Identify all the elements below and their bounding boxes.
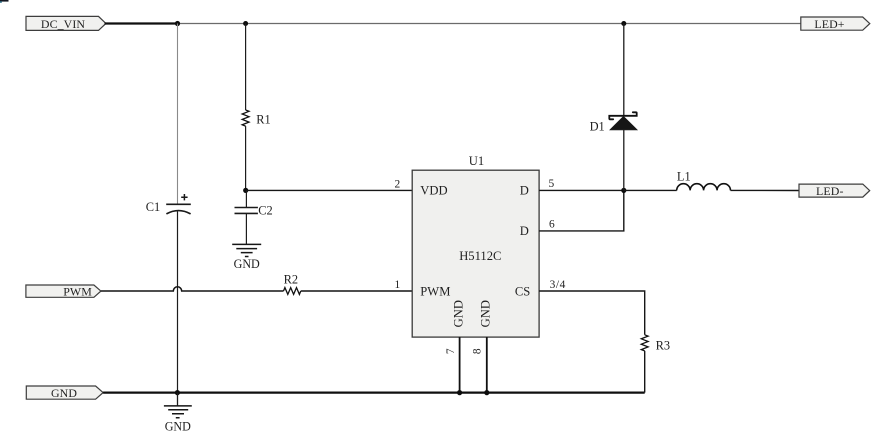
wire node D to C2 — [245, 190, 247, 207]
resistor R2 — [284, 273, 301, 295]
node C junction — [621, 21, 626, 26]
svg-text:R3: R3 — [656, 339, 670, 353]
svg-text:7: 7 — [445, 348, 457, 354]
svg-text:LED+: LED+ — [814, 17, 844, 31]
wire C1 bottom to GND rail — [177, 211, 179, 392]
svg-text:GND: GND — [165, 420, 191, 434]
wire U1 pin 7 to GND rail — [459, 337, 461, 393]
svg-text:LED-: LED- — [816, 184, 843, 198]
node D junction — [243, 188, 248, 193]
svg-text:CS: CS — [515, 285, 530, 299]
wire D1 anode to node E — [623, 130, 625, 191]
svg-text:GND: GND — [451, 300, 465, 327]
resistor R1 — [242, 110, 271, 127]
svg-text:R1: R1 — [256, 113, 270, 127]
svg-text:5: 5 — [548, 178, 554, 190]
wire C2 to ground — [245, 213, 247, 244]
IC U1 body — [412, 154, 539, 337]
svg-text:U1: U1 — [469, 154, 484, 168]
wire node C to D1 cathode — [623, 24, 625, 116]
wire top rail — [178, 23, 801, 25]
svg-text:R2: R2 — [284, 273, 298, 287]
svg-text:C1: C1 — [146, 200, 160, 214]
wire GND rail — [103, 392, 645, 394]
capacitor C1 — [146, 194, 191, 214]
node G junction — [457, 390, 462, 395]
wire R1 bottom to node D — [245, 126, 247, 190]
wire U1 pin 8 to GND rail — [486, 337, 488, 393]
port PWM — [26, 284, 101, 298]
svg-text:GND: GND — [479, 300, 493, 327]
node E junction — [621, 188, 626, 193]
wire DC_VIN to node A — [105, 22, 178, 24]
svg-text:1: 1 — [394, 279, 400, 291]
diode D1 — [590, 112, 638, 133]
ground under C2 — [232, 244, 261, 271]
svg-text:C2: C2 — [258, 204, 272, 218]
wire U1 CS to R3 — [539, 291, 645, 335]
svg-text:GND: GND — [234, 257, 260, 271]
wire R1 top — [245, 24, 247, 111]
svg-text:GND: GND — [51, 386, 77, 400]
port DC_VIN — [26, 16, 106, 30]
wire U1 pin 6 to node E — [539, 190, 624, 231]
wire L1 to LED- — [731, 189, 800, 191]
wire PWM to R2 with hop over C1 net — [101, 287, 284, 291]
svg-text:L1: L1 — [677, 169, 691, 183]
wire U1 pin 5 to node E — [539, 189, 624, 191]
port GND — [26, 386, 103, 400]
svg-text:6: 6 — [549, 218, 555, 230]
svg-text:H5112C: H5112C — [459, 249, 501, 263]
svg-text:PWM: PWM — [63, 284, 92, 298]
node A junction — [175, 21, 180, 26]
inductor L1 — [677, 169, 731, 190]
svg-text:3/4: 3/4 — [550, 279, 566, 291]
wire node D to U1 pin 2 — [246, 189, 413, 191]
wire R2 to U1 pin 1 — [301, 290, 412, 292]
node B junction — [243, 21, 248, 26]
svg-text:2: 2 — [394, 179, 400, 191]
resistor R3 — [641, 335, 670, 353]
wire C1 top — [177, 24, 179, 205]
svg-text:D1: D1 — [590, 119, 605, 133]
wire node E to L1 — [624, 189, 677, 191]
port LED- — [799, 184, 870, 198]
capacitor C2 — [235, 204, 273, 218]
svg-text:D: D — [520, 184, 529, 198]
svg-text:D: D — [520, 224, 529, 238]
wire R3 to GND rail — [644, 351, 646, 393]
svg-text:VDD: VDD — [420, 184, 447, 198]
svg-text:8: 8 — [472, 348, 484, 354]
svg-text:DC_VIN: DC_VIN — [41, 17, 86, 31]
node H junction — [484, 390, 489, 395]
node F junction — [175, 390, 180, 395]
svg-text:PWM: PWM — [420, 285, 450, 299]
port LED+ — [801, 17, 870, 31]
ground bottom — [164, 393, 192, 434]
